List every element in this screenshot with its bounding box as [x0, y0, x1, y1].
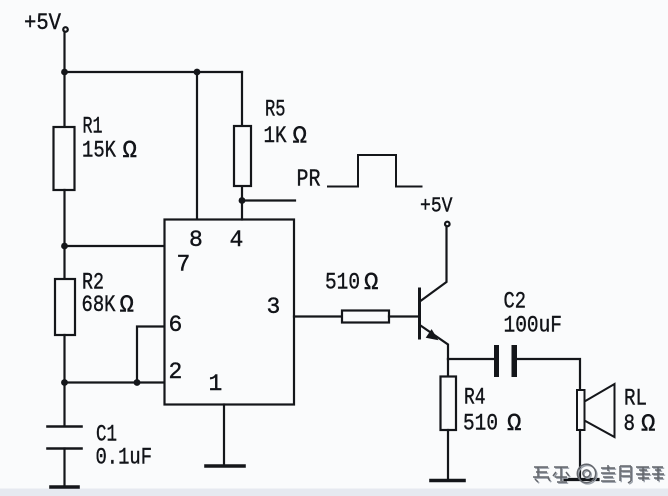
svg-text:1: 1: [209, 371, 223, 397]
svg-text:2: 2: [169, 359, 183, 385]
wire pin3 output: [294, 315, 342, 317]
svg-text:100uF: 100uF: [504, 313, 563, 339]
transistor Q1 base bar: [418, 289, 421, 338]
svg-text:Ω: Ω: [641, 412, 655, 439]
svg-text:7: 7: [177, 252, 191, 278]
bottom tint band: [0, 489, 668, 496]
wire emitter node to C2: [448, 358, 494, 360]
resistor 510 ohm base: [342, 311, 389, 323]
junction dot pin6/pin2: [134, 379, 141, 386]
wire speaker to ground: [579, 430, 581, 478]
svg-text:Ω: Ω: [293, 124, 307, 151]
svg-text:R1: R1: [83, 114, 103, 140]
ground (pin1): [206, 464, 244, 468]
wire node to R4: [447, 359, 449, 377]
speaker RL horn: [585, 384, 615, 437]
svg-text:+5V: +5V: [24, 10, 61, 36]
wire R2 to C1: [63, 335, 65, 426]
wire base: [389, 315, 418, 317]
svg-text:PR: PR: [297, 167, 321, 194]
svg-text:1K: 1K: [264, 123, 287, 149]
wire C1 to ground: [63, 449, 65, 486]
wire emitter: [421, 326, 449, 360]
wire PR stub: [242, 199, 295, 201]
svg-text:R5: R5: [265, 97, 286, 123]
junction dot R1/R2: [61, 243, 68, 250]
svg-text:15K: 15K: [82, 138, 116, 164]
wire R5 top drop: [241, 72, 243, 127]
svg-text:8: 8: [624, 411, 636, 437]
wire pin6 loop: [137, 327, 166, 383]
svg-text:C2: C2: [504, 289, 527, 315]
op-amp U1 555 timer body: [165, 220, 295, 405]
wire pin4 drop: [241, 186, 243, 220]
svg-text:Ω: Ω: [507, 411, 521, 438]
svg-text:510: 510: [463, 411, 498, 437]
capacitor C2 plates: [494, 345, 499, 377]
junction dot R5/pin4: [239, 197, 246, 204]
pulse waveform PR: [328, 155, 422, 187]
wire R4 to ground: [447, 430, 449, 479]
wire pin7 horizontal: [65, 245, 166, 247]
watermark 头条@莲月唯翼: [534, 466, 665, 485]
capacitor C1: [48, 425, 82, 428]
svg-text:0.1uF: 0.1uF: [96, 445, 153, 471]
svg-text:4: 4: [230, 227, 244, 253]
svg-text:510: 510: [325, 270, 360, 296]
wire pin2 horizontal: [65, 381, 166, 383]
node +5V terminal (left): [63, 27, 68, 32]
svg-text:Ω: Ω: [364, 270, 378, 297]
svg-text:RL: RL: [624, 386, 647, 412]
resistor R5: [234, 126, 251, 186]
svg-text:+5V: +5V: [420, 195, 453, 219]
svg-text:Ω: Ω: [120, 293, 134, 320]
svg-text:Ω: Ω: [123, 138, 137, 165]
ground (R4): [431, 479, 464, 483]
wire collector: [421, 227, 447, 302]
svg-text:3: 3: [267, 294, 281, 320]
wire +5V rail down to R1: [63, 32, 65, 128]
svg-text:R4: R4: [464, 385, 486, 411]
svg-text:8: 8: [189, 227, 203, 253]
node +5V terminal (right): [445, 222, 450, 227]
resistor R1: [54, 127, 75, 190]
wire R1 to R2: [63, 190, 65, 279]
ground (C1): [51, 485, 78, 489]
wire pin8 drop: [196, 72, 198, 220]
junction dot rail/top: [61, 69, 68, 76]
wire pin1 to ground: [223, 405, 225, 465]
resistor R2: [55, 279, 75, 335]
junction dot pin8/top: [194, 69, 201, 76]
junction dot R2/C1: [61, 379, 68, 386]
ground (speaker): [565, 478, 598, 481]
wire top horizontal rail: [65, 71, 243, 73]
svg-text:68K: 68K: [82, 292, 116, 318]
speaker RL frame: [577, 390, 585, 430]
wire C2 to speaker: [517, 359, 580, 390]
transistor Q1 emitter arrow: [426, 329, 439, 340]
resistor R4: [441, 377, 457, 431]
svg-text:6: 6: [169, 312, 183, 338]
